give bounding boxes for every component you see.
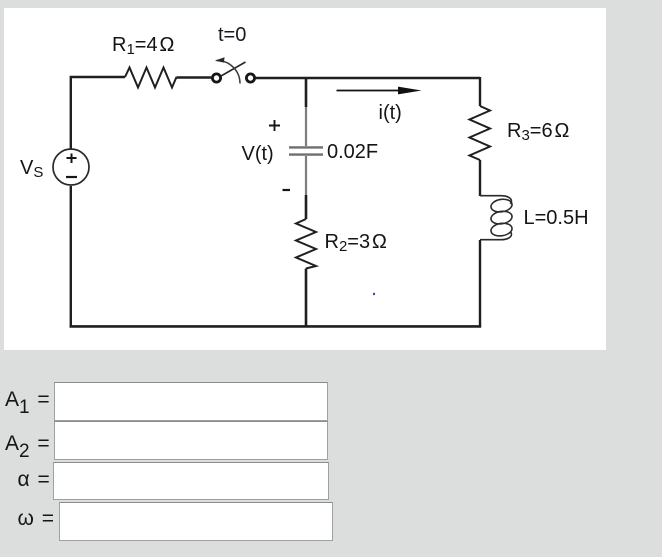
switch S1 right terminal bbox=[246, 74, 254, 82]
wire: R2 to bottom rail bbox=[305, 269, 308, 327]
node: middle branch tap, wire down to capacitor bbox=[305, 78, 308, 107]
answer input box A1 bbox=[54, 382, 328, 421]
answer input box A2 bbox=[54, 421, 328, 460]
white circuit panel bbox=[4, 8, 606, 350]
wire: bottom rail bbox=[70, 325, 482, 328]
capacitor + polarity mark bbox=[269, 120, 280, 131]
capacitor C1 plates (0.02F) bbox=[289, 147, 323, 154]
wire: R3 to inductor bbox=[479, 160, 481, 196]
wire: top-left horizontal from left rail to R1 bbox=[71, 77, 125, 326]
resistor R2 zigzag bbox=[296, 219, 316, 269]
label i(t) bbox=[379, 102, 402, 125]
resistor R1 zigzag bbox=[125, 68, 177, 88]
wire: right rail top, down to R3 bbox=[479, 77, 481, 106]
current arrow i(t) bbox=[337, 90, 403, 92]
label t=0 bbox=[218, 24, 246, 47]
answer input box omega bbox=[59, 502, 333, 541]
inductor L coil (L=0.5H) bbox=[480, 196, 513, 240]
label R3=6ohm bbox=[507, 120, 570, 146]
voltage source - mark bbox=[66, 176, 77, 178]
label 0.02F bbox=[327, 141, 378, 164]
answer label alpha = bbox=[18, 468, 50, 492]
label Vs bbox=[20, 157, 43, 183]
voltage source + mark bbox=[67, 154, 77, 164]
wire: switch to top-right corner bbox=[256, 77, 481, 79]
answer label omega = bbox=[18, 507, 55, 531]
label V(t) bbox=[242, 143, 274, 166]
answer label A1 = bbox=[5, 388, 50, 417]
answer input box alpha bbox=[53, 462, 329, 500]
wire: inductor to bottom-right corner bbox=[479, 240, 481, 326]
label L=0.5H bbox=[524, 207, 589, 230]
label R1=4ohm bbox=[112, 34, 175, 60]
wire: R1 to switch bbox=[177, 76, 212, 78]
switch S1 blade bbox=[221, 62, 246, 76]
resistor R3 zigzag bbox=[470, 106, 491, 160]
label R2=3ohm bbox=[325, 231, 388, 257]
blue dot artifact bbox=[373, 293, 375, 295]
switch S1 motion arc with arrowhead bbox=[215, 57, 240, 83]
switch S1 left terminal bbox=[212, 74, 220, 82]
voltage source Vs circle bbox=[53, 149, 89, 185]
capacitor - polarity mark bbox=[283, 189, 291, 191]
wire: capacitor to R2 bbox=[305, 156, 307, 195]
answer label A2 = bbox=[5, 432, 50, 461]
